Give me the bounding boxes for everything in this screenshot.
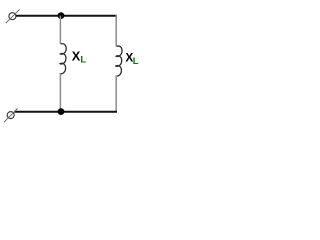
svg-text:L: L [133, 56, 139, 67]
wire right branch upper [115, 15, 117, 46]
node B (bottom junction) [58, 108, 65, 115]
wire left branch upper [59, 16, 61, 44]
wire top [16, 15, 117, 17]
svg-text:L: L [80, 55, 86, 66]
inductor XL2 (right coil) [116, 46, 122, 76]
node A (top junction) [58, 12, 65, 19]
terminal T2 (bottom input) [4, 108, 18, 122]
inductor XL1 (left coil) [60, 44, 66, 74]
wire left branch lower [59, 73, 61, 112]
wire bottom [14, 111, 117, 113]
wire right branch lower [115, 75, 117, 111]
terminal T1 (top input) [6, 9, 20, 23]
